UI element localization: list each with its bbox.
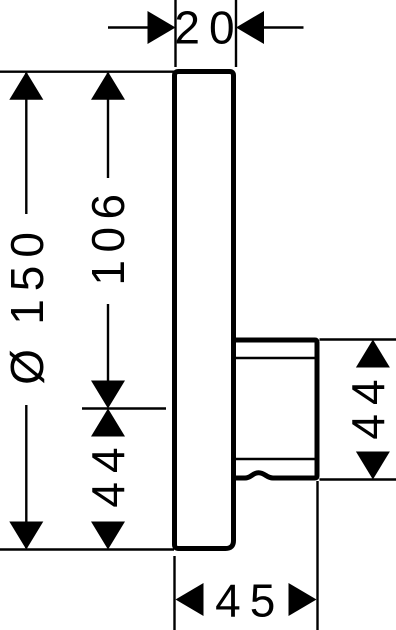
svg-text:44: 44 [82, 438, 134, 507]
dimension line 20 right tail [262, 26, 304, 28]
arrow down at bottom of dim 150 [9, 522, 43, 550]
dimension line 106 upper segment [107, 73, 109, 178]
svg-text:150: 150 [1, 224, 53, 325]
arrow up at top of left dim 44 [91, 409, 125, 437]
arrow up at top of right dim 44 [356, 340, 390, 368]
plate escutcheon side view outline [175, 72, 234, 549]
arrow left-pointing at right of dim 20 [236, 11, 264, 44]
dimension line 150 lower segment [25, 405, 27, 548]
svg-text:45: 45 [215, 575, 284, 627]
valve body inner line top [236, 357, 315, 359]
extension line right of dim 45 [316, 481, 318, 630]
dimension line 106 lower segment [107, 304, 109, 406]
svg-text:20: 20 [174, 2, 243, 54]
arrow up at top of dim 106 [91, 72, 125, 100]
svg-text:Ø: Ø [1, 349, 53, 385]
svg-text:44: 44 [342, 370, 394, 439]
extension line top of plate (for 150 and 106) [0, 70, 174, 72]
extension line handle axis (for 106 and 44) [82, 407, 166, 409]
extension line left of dim 20 [174, 0, 176, 67]
arrow left-pointing at left of dim 45 [176, 583, 204, 616]
arrow right-pointing at left of dim 20 [148, 11, 176, 44]
extension line left of dim 45 [173, 556, 175, 630]
valve body outline [234, 340, 318, 478]
dimension line 20 left tail [108, 26, 150, 28]
arrow up at top of dim 150 [9, 72, 43, 100]
valve body inner line bottom [236, 458, 315, 460]
extension line bottom of valve (for right 44) [320, 478, 396, 480]
extension line bottom of plate (for 150 and 44) [0, 548, 174, 550]
arrow right-pointing at right of dim 45 [289, 583, 317, 616]
extension line right of dim 20 [235, 0, 237, 67]
extension line top of valve (for right 44) [320, 338, 396, 340]
arrow down at bottom of dim 106 [91, 381, 125, 409]
arrow down at bottom of left dim 44 [91, 522, 125, 550]
dimension line 150 upper segment [25, 73, 27, 214]
arrow down at bottom of right dim 44 [356, 452, 390, 480]
svg-text:106: 106 [82, 186, 134, 285]
